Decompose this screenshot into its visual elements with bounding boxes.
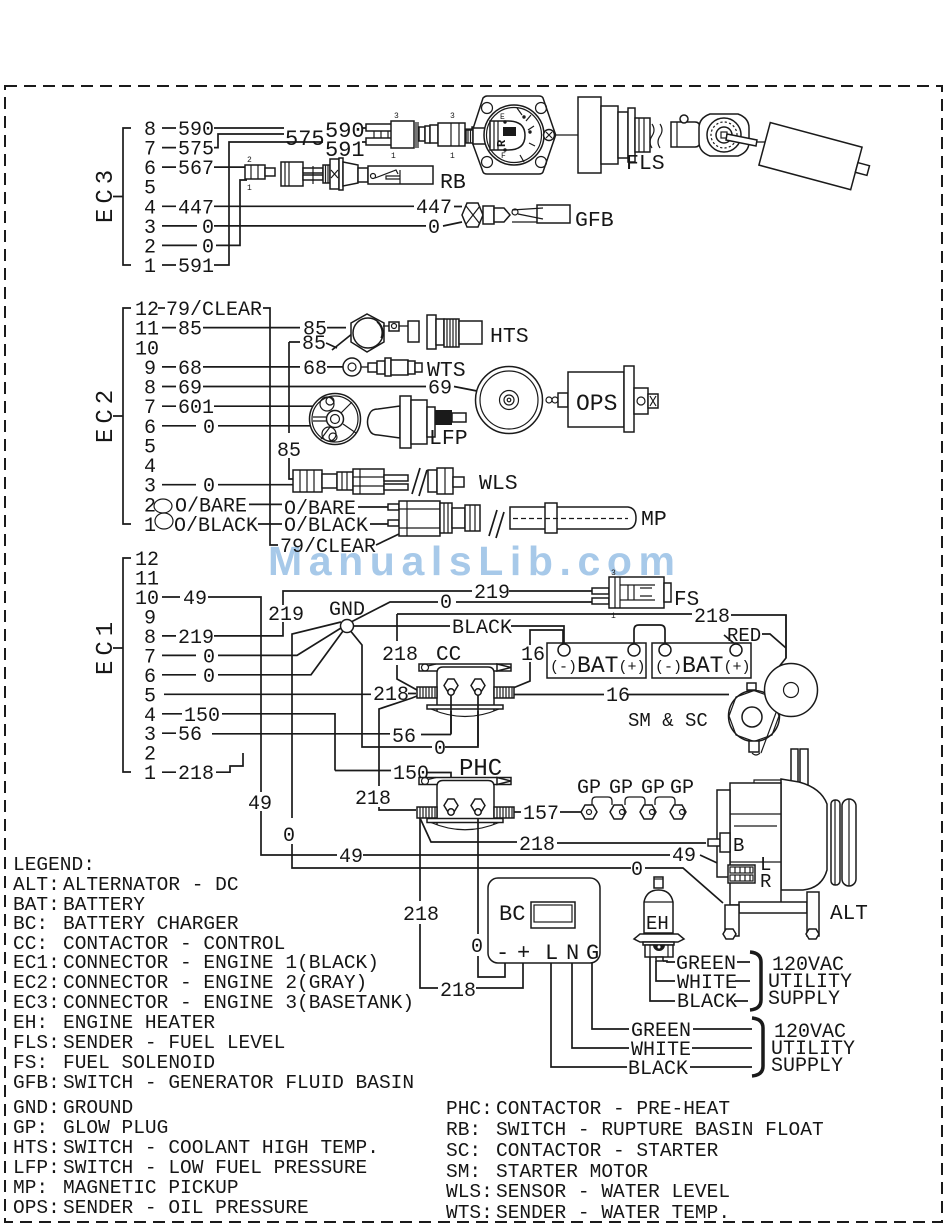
svg-text:MAGNETIC PICKUP: MAGNETIC PICKUP — [63, 1177, 239, 1199]
svg-text:EH:: EH: — [13, 1012, 48, 1034]
svg-text:0: 0 — [471, 936, 483, 959]
svg-text:MP:: MP: — [13, 1177, 48, 1199]
svg-text:PHC: PHC — [459, 756, 502, 783]
svg-text:LFP: LFP — [429, 427, 468, 451]
svg-text:EC3: EC3 — [93, 165, 120, 223]
svg-text:218: 218 — [519, 834, 555, 857]
svg-text:LEGEND:: LEGEND: — [13, 854, 95, 876]
svg-text:WLS:: WLS: — [446, 1181, 493, 1203]
svg-text:49: 49 — [672, 845, 696, 868]
svg-text:FLS: FLS — [626, 152, 665, 176]
svg-text:EC1:: EC1: — [13, 952, 60, 974]
svg-text:0: 0 — [203, 417, 215, 440]
svg-text:BC:: BC: — [13, 913, 48, 935]
svg-text:SENDER - OIL PRESSURE: SENDER - OIL PRESSURE — [63, 1197, 309, 1219]
svg-text:FUEL SOLENOID: FUEL SOLENOID — [63, 1052, 215, 1074]
svg-text:219: 219 — [268, 604, 304, 627]
svg-text:SUPPLY: SUPPLY — [768, 988, 840, 1011]
svg-text:BLACK: BLACK — [677, 991, 737, 1014]
svg-text:0: 0 — [434, 738, 446, 761]
svg-text:218: 218 — [382, 644, 418, 667]
svg-text:GND: GND — [329, 599, 365, 622]
svg-text:1: 1 — [144, 515, 156, 538]
svg-text:L: L — [545, 941, 558, 966]
svg-text:CONTACTOR - PRE-HEAT: CONTACTOR - PRE-HEAT — [496, 1098, 730, 1120]
svg-text:85: 85 — [178, 319, 202, 342]
svg-text:CC: CC — [436, 644, 461, 667]
svg-text:GROUND: GROUND — [63, 1097, 133, 1119]
svg-text:BC: BC — [499, 902, 525, 927]
svg-text:RB:: RB: — [446, 1119, 481, 1141]
svg-text:HTS: HTS — [490, 325, 529, 349]
svg-text:GP: GP — [641, 777, 665, 800]
svg-text:1: 1 — [144, 256, 156, 279]
svg-text:575: 575 — [285, 127, 325, 152]
svg-text:GP: GP — [577, 777, 601, 800]
svg-text:R: R — [760, 871, 771, 893]
svg-text:MP: MP — [641, 508, 667, 532]
svg-text:SC:: SC: — [446, 1140, 481, 1162]
svg-text:WLS: WLS — [479, 472, 518, 496]
svg-text:-: - — [496, 941, 509, 966]
svg-text:EC2: EC2 — [93, 385, 120, 443]
svg-text:EC1: EC1 — [93, 617, 120, 675]
svg-text:WTS: WTS — [427, 359, 466, 383]
svg-text:85: 85 — [277, 440, 301, 463]
svg-text:O/BLACK: O/BLACK — [284, 515, 368, 538]
svg-text:LFP:: LFP: — [13, 1157, 60, 1179]
svg-text:G: G — [586, 941, 599, 966]
svg-text:218: 218 — [373, 684, 409, 707]
svg-text:BATTERY CHARGER: BATTERY CHARGER — [63, 913, 239, 935]
svg-text:49: 49 — [183, 588, 207, 611]
svg-text:GND:: GND: — [13, 1097, 60, 1119]
svg-text:SM:: SM: — [446, 1161, 481, 1183]
svg-text:85: 85 — [302, 333, 326, 356]
svg-text:0: 0 — [203, 666, 215, 689]
svg-text:N: N — [566, 941, 579, 966]
svg-text:CONTACTOR - STARTER: CONTACTOR - STARTER — [496, 1140, 719, 1162]
svg-text:49: 49 — [339, 846, 363, 869]
svg-text:218: 218 — [440, 980, 476, 1003]
svg-text:SENSOR - WATER LEVEL: SENSOR - WATER LEVEL — [496, 1181, 730, 1203]
svg-text:GFB:: GFB: — [13, 1072, 60, 1094]
svg-text:SUPPLY: SUPPLY — [771, 1055, 843, 1078]
svg-text:56: 56 — [178, 724, 202, 747]
svg-text:ALT: ALT — [830, 903, 868, 926]
svg-text:CONNECTOR - ENGINE 3(BASETANK): CONNECTOR - ENGINE 3(BASETANK) — [63, 992, 414, 1014]
svg-text:O/BLACK: O/BLACK — [174, 515, 258, 538]
svg-text:SENDER - FUEL LEVEL: SENDER - FUEL LEVEL — [63, 1032, 285, 1054]
svg-text:R: R — [495, 139, 509, 147]
svg-text:SWITCH - GENERATOR FLUID BASIN: SWITCH - GENERATOR FLUID BASIN — [63, 1072, 414, 1094]
svg-text:1: 1 — [247, 184, 252, 193]
svg-text:16: 16 — [521, 644, 545, 667]
svg-text:HTS:: HTS: — [13, 1137, 60, 1159]
svg-text:+: + — [517, 941, 530, 966]
svg-text:ENGINE HEATER: ENGINE HEATER — [63, 1012, 215, 1034]
svg-text:PHC:: PHC: — [446, 1098, 493, 1120]
svg-text:SWITCH - LOW FUEL PRESSURE: SWITCH - LOW FUEL PRESSURE — [63, 1157, 367, 1179]
svg-text:FLS:: FLS: — [13, 1032, 60, 1054]
svg-text:3: 3 — [611, 569, 616, 578]
svg-text:ALT:: ALT: — [13, 874, 60, 896]
svg-text:56: 56 — [392, 726, 416, 749]
svg-text:567: 567 — [178, 158, 214, 181]
svg-text:WTS:: WTS: — [446, 1202, 493, 1224]
svg-text:EC3:: EC3: — [13, 992, 60, 1014]
svg-text:CONNECTOR - ENGINE 2(GRAY): CONNECTOR - ENGINE 2(GRAY) — [63, 972, 367, 994]
svg-text:CONNECTOR - ENGINE 1(BLACK): CONNECTOR - ENGINE 1(BLACK) — [63, 952, 379, 974]
svg-text:RB: RB — [440, 171, 466, 195]
svg-text:GLOW PLUG: GLOW PLUG — [63, 1117, 168, 1139]
svg-text:157: 157 — [523, 803, 559, 826]
svg-text:0: 0 — [283, 825, 295, 848]
svg-text:EH: EH — [646, 913, 669, 935]
svg-text:2: 2 — [247, 156, 252, 165]
svg-text:218: 218 — [178, 763, 214, 786]
svg-text:E: E — [500, 113, 505, 122]
svg-text:GP: GP — [609, 777, 633, 800]
svg-text:49: 49 — [248, 793, 272, 816]
svg-text:218: 218 — [403, 904, 439, 927]
svg-text:SWITCH - RUPTURE BASIN FLOAT: SWITCH - RUPTURE BASIN FLOAT — [496, 1119, 824, 1141]
svg-text:GP:: GP: — [13, 1117, 48, 1139]
svg-text:218: 218 — [694, 606, 730, 629]
svg-text:GP: GP — [670, 777, 694, 800]
svg-text:EC2:: EC2: — [13, 972, 60, 994]
svg-text:3: 3 — [394, 112, 399, 121]
svg-text:68: 68 — [303, 358, 327, 381]
svg-text:1: 1 — [391, 152, 396, 161]
svg-text:FS:: FS: — [13, 1052, 48, 1074]
svg-text:591: 591 — [178, 256, 214, 279]
svg-text:0: 0 — [428, 217, 440, 240]
svg-text:BLACK: BLACK — [452, 617, 512, 640]
svg-text:SWITCH - COOLANT HIGH TEMP.: SWITCH - COOLANT HIGH TEMP. — [63, 1137, 379, 1159]
svg-text:218: 218 — [355, 788, 391, 811]
svg-text:F: F — [501, 152, 506, 161]
svg-text:B: B — [733, 835, 744, 857]
svg-text:OPS: OPS — [576, 391, 617, 417]
svg-text:OPS:: OPS: — [13, 1197, 60, 1219]
svg-text:1: 1 — [144, 763, 156, 786]
svg-text:3: 3 — [450, 112, 455, 121]
svg-text:0: 0 — [440, 592, 452, 615]
svg-text:STARTER MOTOR: STARTER MOTOR — [496, 1161, 648, 1183]
svg-text:16: 16 — [606, 685, 630, 708]
svg-text:GFB: GFB — [575, 209, 614, 233]
svg-text:BLACK: BLACK — [628, 1058, 688, 1081]
svg-text:79/CLEAR: 79/CLEAR — [280, 536, 376, 559]
svg-text:0: 0 — [631, 859, 643, 882]
svg-text:SENDER - WATER TEMP.: SENDER - WATER TEMP. — [496, 1202, 730, 1224]
svg-text:SM & SC: SM & SC — [628, 710, 708, 732]
svg-text:ALTERNATOR - DC: ALTERNATOR - DC — [63, 874, 239, 896]
svg-text:1: 1 — [450, 152, 455, 161]
